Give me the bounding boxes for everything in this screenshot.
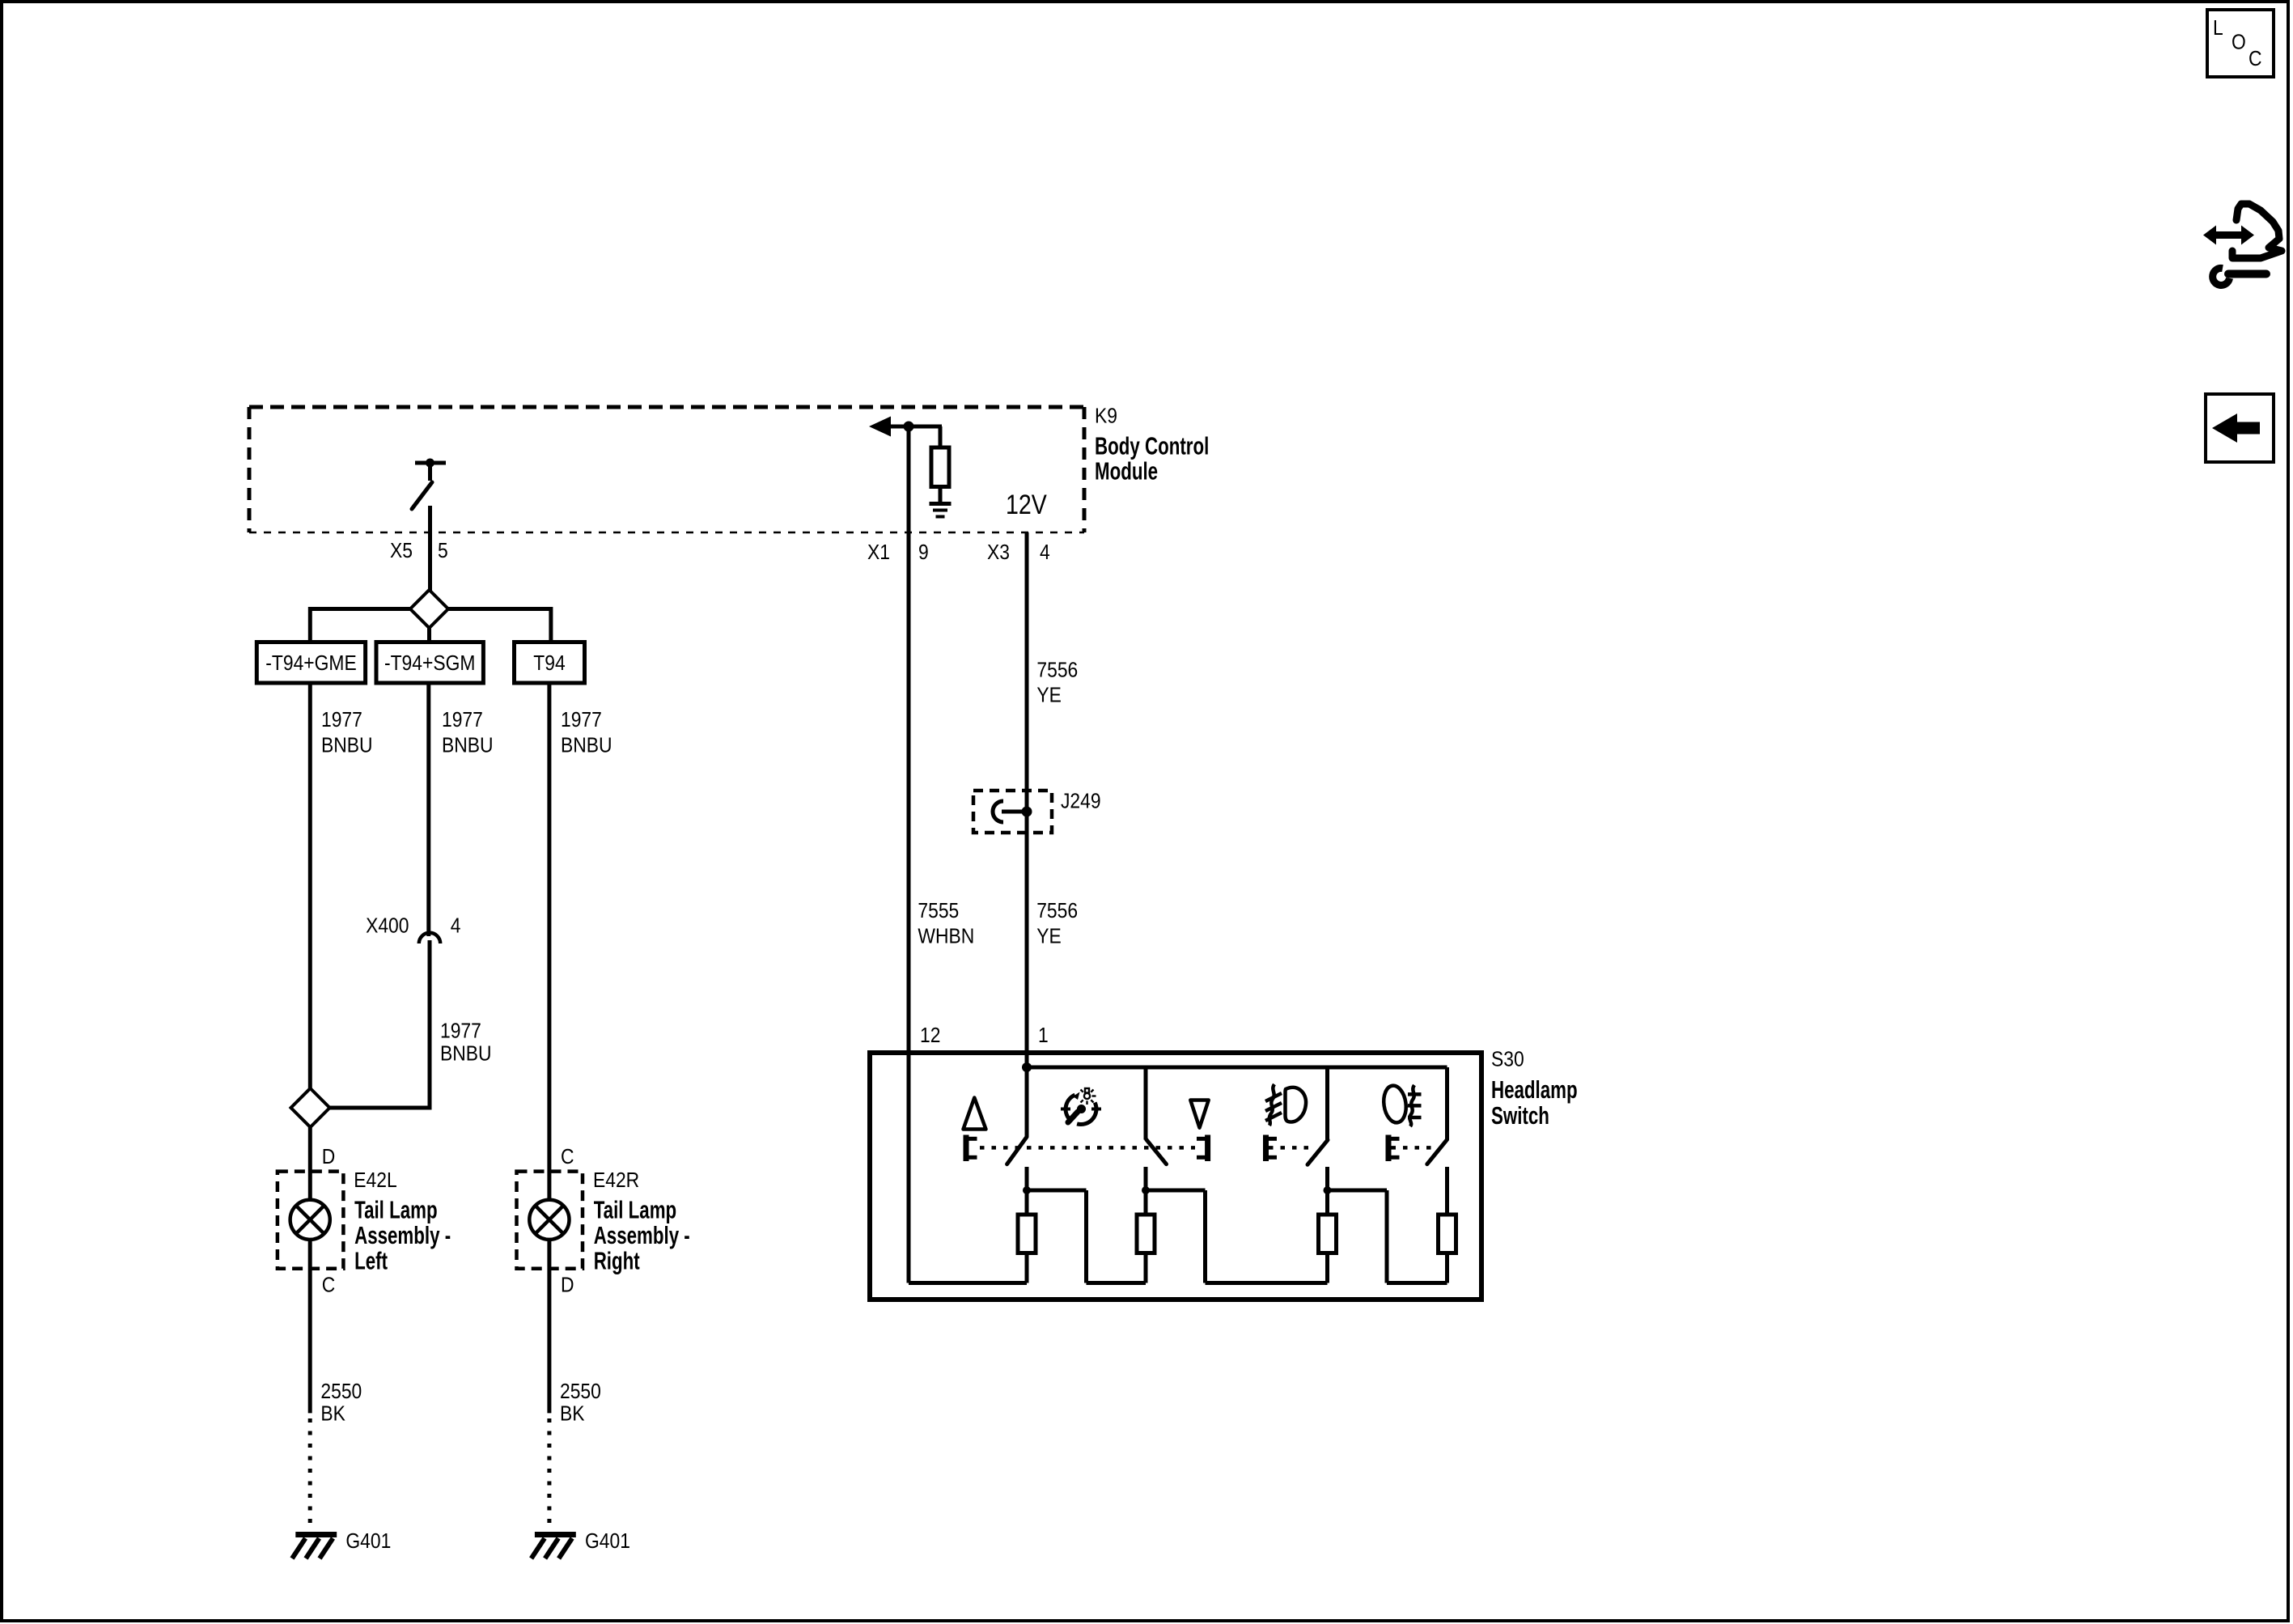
lamp E42R dashed outline (517, 1172, 583, 1269)
svg-text:1977: 1977 (561, 709, 602, 732)
wire 1977 BNBU (SGM branch, to X400) (426, 683, 430, 936)
module K9 Body Control Module dashed outline (249, 407, 1084, 532)
node 12V supply label (1006, 490, 1047, 520)
svg-text:Left: Left (354, 1247, 388, 1274)
svg-text:T94: T94 (533, 652, 565, 676)
ground G401 (left) (292, 1535, 337, 1559)
svg-text:BNBU: BNBU (442, 734, 494, 757)
svg-text:1977: 1977 (440, 1020, 481, 1043)
node K9 label (1095, 405, 1117, 428)
svg-text:7556: 7556 (1036, 900, 1078, 923)
junction pin1 bus (1022, 1062, 1032, 1072)
svg-text:YE: YE (1036, 684, 1062, 707)
node option box -T94+SGM (376, 642, 483, 684)
junction at switch 1 output (1023, 1186, 1031, 1194)
svg-text:Tail Lamp: Tail Lamp (354, 1196, 437, 1223)
svg-text:12V: 12V (1006, 490, 1047, 520)
wire 2550 BK (right) (547, 1240, 551, 1414)
wire dotted mechanical linkage (switch 3) (1269, 1146, 1311, 1150)
node wire label 1977 BNBU (left) (321, 709, 373, 757)
junction on X1-9 net (904, 422, 914, 432)
node dome lamp override (down triangle) icon (1190, 1100, 1208, 1128)
svg-text:C: C (322, 1274, 336, 1297)
svg-text:4: 4 (451, 914, 461, 938)
node rear fog lamp icon (1381, 1084, 1421, 1126)
node harness-routing icon (double arrow with routing path and wrench) (2203, 204, 2282, 285)
svg-text:X3: X3 (987, 541, 1010, 565)
node G401 label (right) (585, 1530, 630, 1554)
svg-text:X1: X1 (867, 541, 890, 565)
wire dotted mechanical linkage (switch 4) (1392, 1146, 1434, 1150)
wire bottom run switch1 to resistor 2 (1087, 1281, 1146, 1285)
svg-text:Switch: Switch (1491, 1102, 1549, 1130)
svg-text:7556: 7556 (1036, 659, 1078, 682)
node mechanical-link bracket (switches 1-2 right) (1197, 1135, 1208, 1162)
node wire label 1977 BNBU (below X400) (440, 1020, 492, 1065)
svg-text:BNBU: BNBU (321, 734, 373, 757)
node wire label 7556 YE (lower) (1036, 900, 1078, 948)
wire 1977 BNBU (T94 branch) (547, 683, 551, 1201)
wire output of switch 2 (1144, 1167, 1148, 1215)
svg-text:L: L (2213, 17, 2223, 40)
node panel dimmer dial icon (1061, 1088, 1101, 1125)
node wire label 2550 BK (right) (560, 1380, 601, 1426)
svg-text:-T94+GME: -T94+GME (265, 652, 356, 676)
node back-arrow legend box (2206, 394, 2274, 462)
svg-text:E42R: E42R (593, 1169, 639, 1193)
node switch pin 12 label (920, 1024, 940, 1048)
svg-text:G401: G401 (585, 1530, 630, 1554)
node X400 inline connector pin 4 (366, 914, 460, 943)
wire tee branch from switch 3 output (1328, 1190, 1388, 1283)
svg-text:Module: Module (1095, 457, 1158, 485)
node wire label 7555 WHBN (918, 900, 974, 948)
svg-text:1: 1 (1038, 1024, 1049, 1048)
ground G401 (right) (532, 1535, 576, 1559)
svg-text:1977: 1977 (442, 709, 483, 732)
wire into E42L (308, 1127, 312, 1201)
switch blade 2 (1146, 1139, 1167, 1164)
resistor (BCM internal pull-down) (931, 426, 949, 502)
lamp E42R bulb symbol (529, 1200, 569, 1240)
svg-text:2550: 2550 (320, 1380, 362, 1404)
node signal arrow (to X1-9 input) (869, 417, 942, 437)
svg-text:Assembly -: Assembly - (354, 1221, 451, 1249)
node option box -T94+GME (256, 642, 365, 684)
switch blade 3 (1308, 1140, 1328, 1165)
switch S30 Headlamp Switch outline (870, 1053, 1481, 1300)
junction at switch 3 output (1324, 1186, 1332, 1194)
svg-text:S30: S30 (1491, 1048, 1524, 1071)
node LOC legend box (2207, 10, 2274, 77)
node splice diamond (upper) (410, 590, 448, 628)
svg-text:4: 4 (1040, 541, 1050, 565)
wire 1977 BNBU (below X400, joins left splice) (328, 940, 430, 1108)
node hazard (up triangle) icon (964, 1098, 986, 1130)
wire internal feed bus from pin 1 (1027, 1066, 1447, 1070)
node wire label 2550 BK (left) (320, 1380, 362, 1426)
svg-text:-T94+SGM: -T94+SGM (384, 652, 475, 676)
svg-text:WHBN: WHBN (918, 925, 974, 948)
node pin D label (E42R) (561, 1274, 574, 1297)
wire output of switch 4 (1445, 1167, 1449, 1215)
junction at switch 2 output (1142, 1186, 1150, 1194)
wire output of switch 1 (1025, 1167, 1029, 1215)
svg-text:D: D (322, 1146, 336, 1169)
resistor (switch section 2) (1137, 1215, 1155, 1283)
node front fog lamp icon (1265, 1084, 1306, 1126)
svg-text:YE: YE (1036, 925, 1062, 948)
svg-text:D: D (561, 1274, 574, 1297)
node Body Control Module label (1095, 432, 1209, 485)
ground (BCM internal) (930, 504, 952, 517)
node connector X5 pin 5 labels (390, 540, 448, 563)
wire feed drop to switch 2 (1144, 1067, 1148, 1140)
node mechanical-link bracket (switch 3) (1266, 1135, 1278, 1162)
node switch pin 1 label (1038, 1024, 1049, 1048)
svg-text:1977: 1977 (321, 709, 362, 732)
resistor (switch section 1) (1018, 1215, 1036, 1283)
svg-text:BNBU: BNBU (561, 734, 612, 757)
svg-text:E42L: E42L (354, 1169, 396, 1193)
svg-text:K9: K9 (1095, 405, 1117, 428)
svg-text:C: C (2248, 48, 2262, 71)
wire bottom run switch2 to resistor 3 (1206, 1281, 1328, 1285)
wire feed drop to switch 3 (1325, 1067, 1329, 1140)
node option box T94 (515, 642, 585, 684)
wire dotted mechanical linkage (switches 1-2) (980, 1146, 1195, 1150)
wire 7556 YE (BCM X3-4 to switch pin 1) (1025, 532, 1029, 1137)
wire tee branch from switch 2 output (1146, 1190, 1206, 1283)
node S30 label (1491, 1048, 1524, 1071)
connector J249 inline splice (973, 791, 1052, 833)
node G401 label (left) (345, 1530, 391, 1554)
switch blade 1 (1007, 1137, 1027, 1164)
wire branch to three T94 options (310, 607, 551, 642)
svg-text:12: 12 (920, 1024, 940, 1048)
wire feed drop to switch 4 (1445, 1067, 1449, 1140)
node pin C label (E42R) (561, 1146, 574, 1169)
node wire label 1977 BNBU (middle) (442, 709, 494, 757)
svg-text:J249: J249 (1061, 790, 1101, 813)
svg-text:5: 5 (438, 540, 448, 563)
node pin D label (E42L) (322, 1146, 336, 1169)
node mechanical-link bracket (switch 4) (1388, 1135, 1400, 1162)
node pin C label (E42L) (322, 1274, 336, 1297)
svg-text:O: O (2232, 31, 2246, 54)
svg-text:BNBU: BNBU (440, 1042, 492, 1066)
svg-text:G401: G401 (345, 1530, 391, 1554)
wire output of switch 3 (1325, 1167, 1329, 1215)
resistor (switch section 4) (1439, 1215, 1456, 1283)
svg-text:7555: 7555 (918, 900, 959, 923)
node wire label 7556 YE (upper) (1036, 659, 1078, 707)
wire 7555 WHBN (BCM X1-9 to switch pin 12) (907, 426, 911, 1283)
node mechanical-link bracket (switches 1-2 left) (966, 1135, 977, 1162)
node splice diamond (lower) (291, 1088, 330, 1127)
svg-text:Right: Right (594, 1247, 640, 1274)
node Tail Lamp Assembly - Right label (594, 1196, 690, 1274)
svg-text:X5: X5 (390, 540, 413, 563)
svg-text:Assembly -: Assembly - (594, 1221, 690, 1249)
svg-text:2550: 2550 (560, 1380, 601, 1404)
lamp E42L dashed outline (278, 1172, 344, 1269)
svg-text:C: C (561, 1146, 574, 1169)
node E42R labels (593, 1169, 639, 1193)
svg-text:BK: BK (320, 1402, 345, 1426)
node wire label 1977 BNBU (right) (561, 709, 612, 757)
node Tail Lamp Assembly - Left label (354, 1196, 451, 1274)
svg-text:BK: BK (560, 1402, 585, 1426)
wire 2550 BK (left) (308, 1240, 312, 1414)
svg-text:Body Control: Body Control (1095, 432, 1209, 460)
node E42L labels (354, 1169, 396, 1193)
svg-text:Tail Lamp: Tail Lamp (594, 1196, 676, 1223)
node connector X1 pin 9 labels (867, 541, 929, 565)
switch blade 4 (1427, 1139, 1447, 1164)
node J249 label (1061, 790, 1101, 813)
wire dotted ground lead (left) (308, 1418, 312, 1524)
wire dotted ground lead (right) (547, 1418, 551, 1524)
wire 1977 BNBU (GME branch) (308, 683, 312, 1089)
node connector X3 pin 4 labels (987, 541, 1050, 565)
lamp E42L bulb symbol (290, 1200, 330, 1240)
node Headlamp Switch label (1491, 1075, 1578, 1130)
wire tee branch from switch 1 output (1027, 1190, 1087, 1283)
wire bottom run switch3 to resistor 4 (1387, 1281, 1447, 1285)
svg-text:Headlamp: Headlamp (1491, 1075, 1578, 1103)
resistor (switch section 3) (1319, 1215, 1337, 1283)
wire X5-5 stub (428, 506, 432, 591)
wire bottom run pin12 to resistor 1 (909, 1281, 1027, 1285)
svg-text:X400: X400 (366, 914, 409, 938)
switch (BCM internal driver, output X5-5) (412, 459, 446, 510)
svg-text:9: 9 (918, 541, 929, 565)
